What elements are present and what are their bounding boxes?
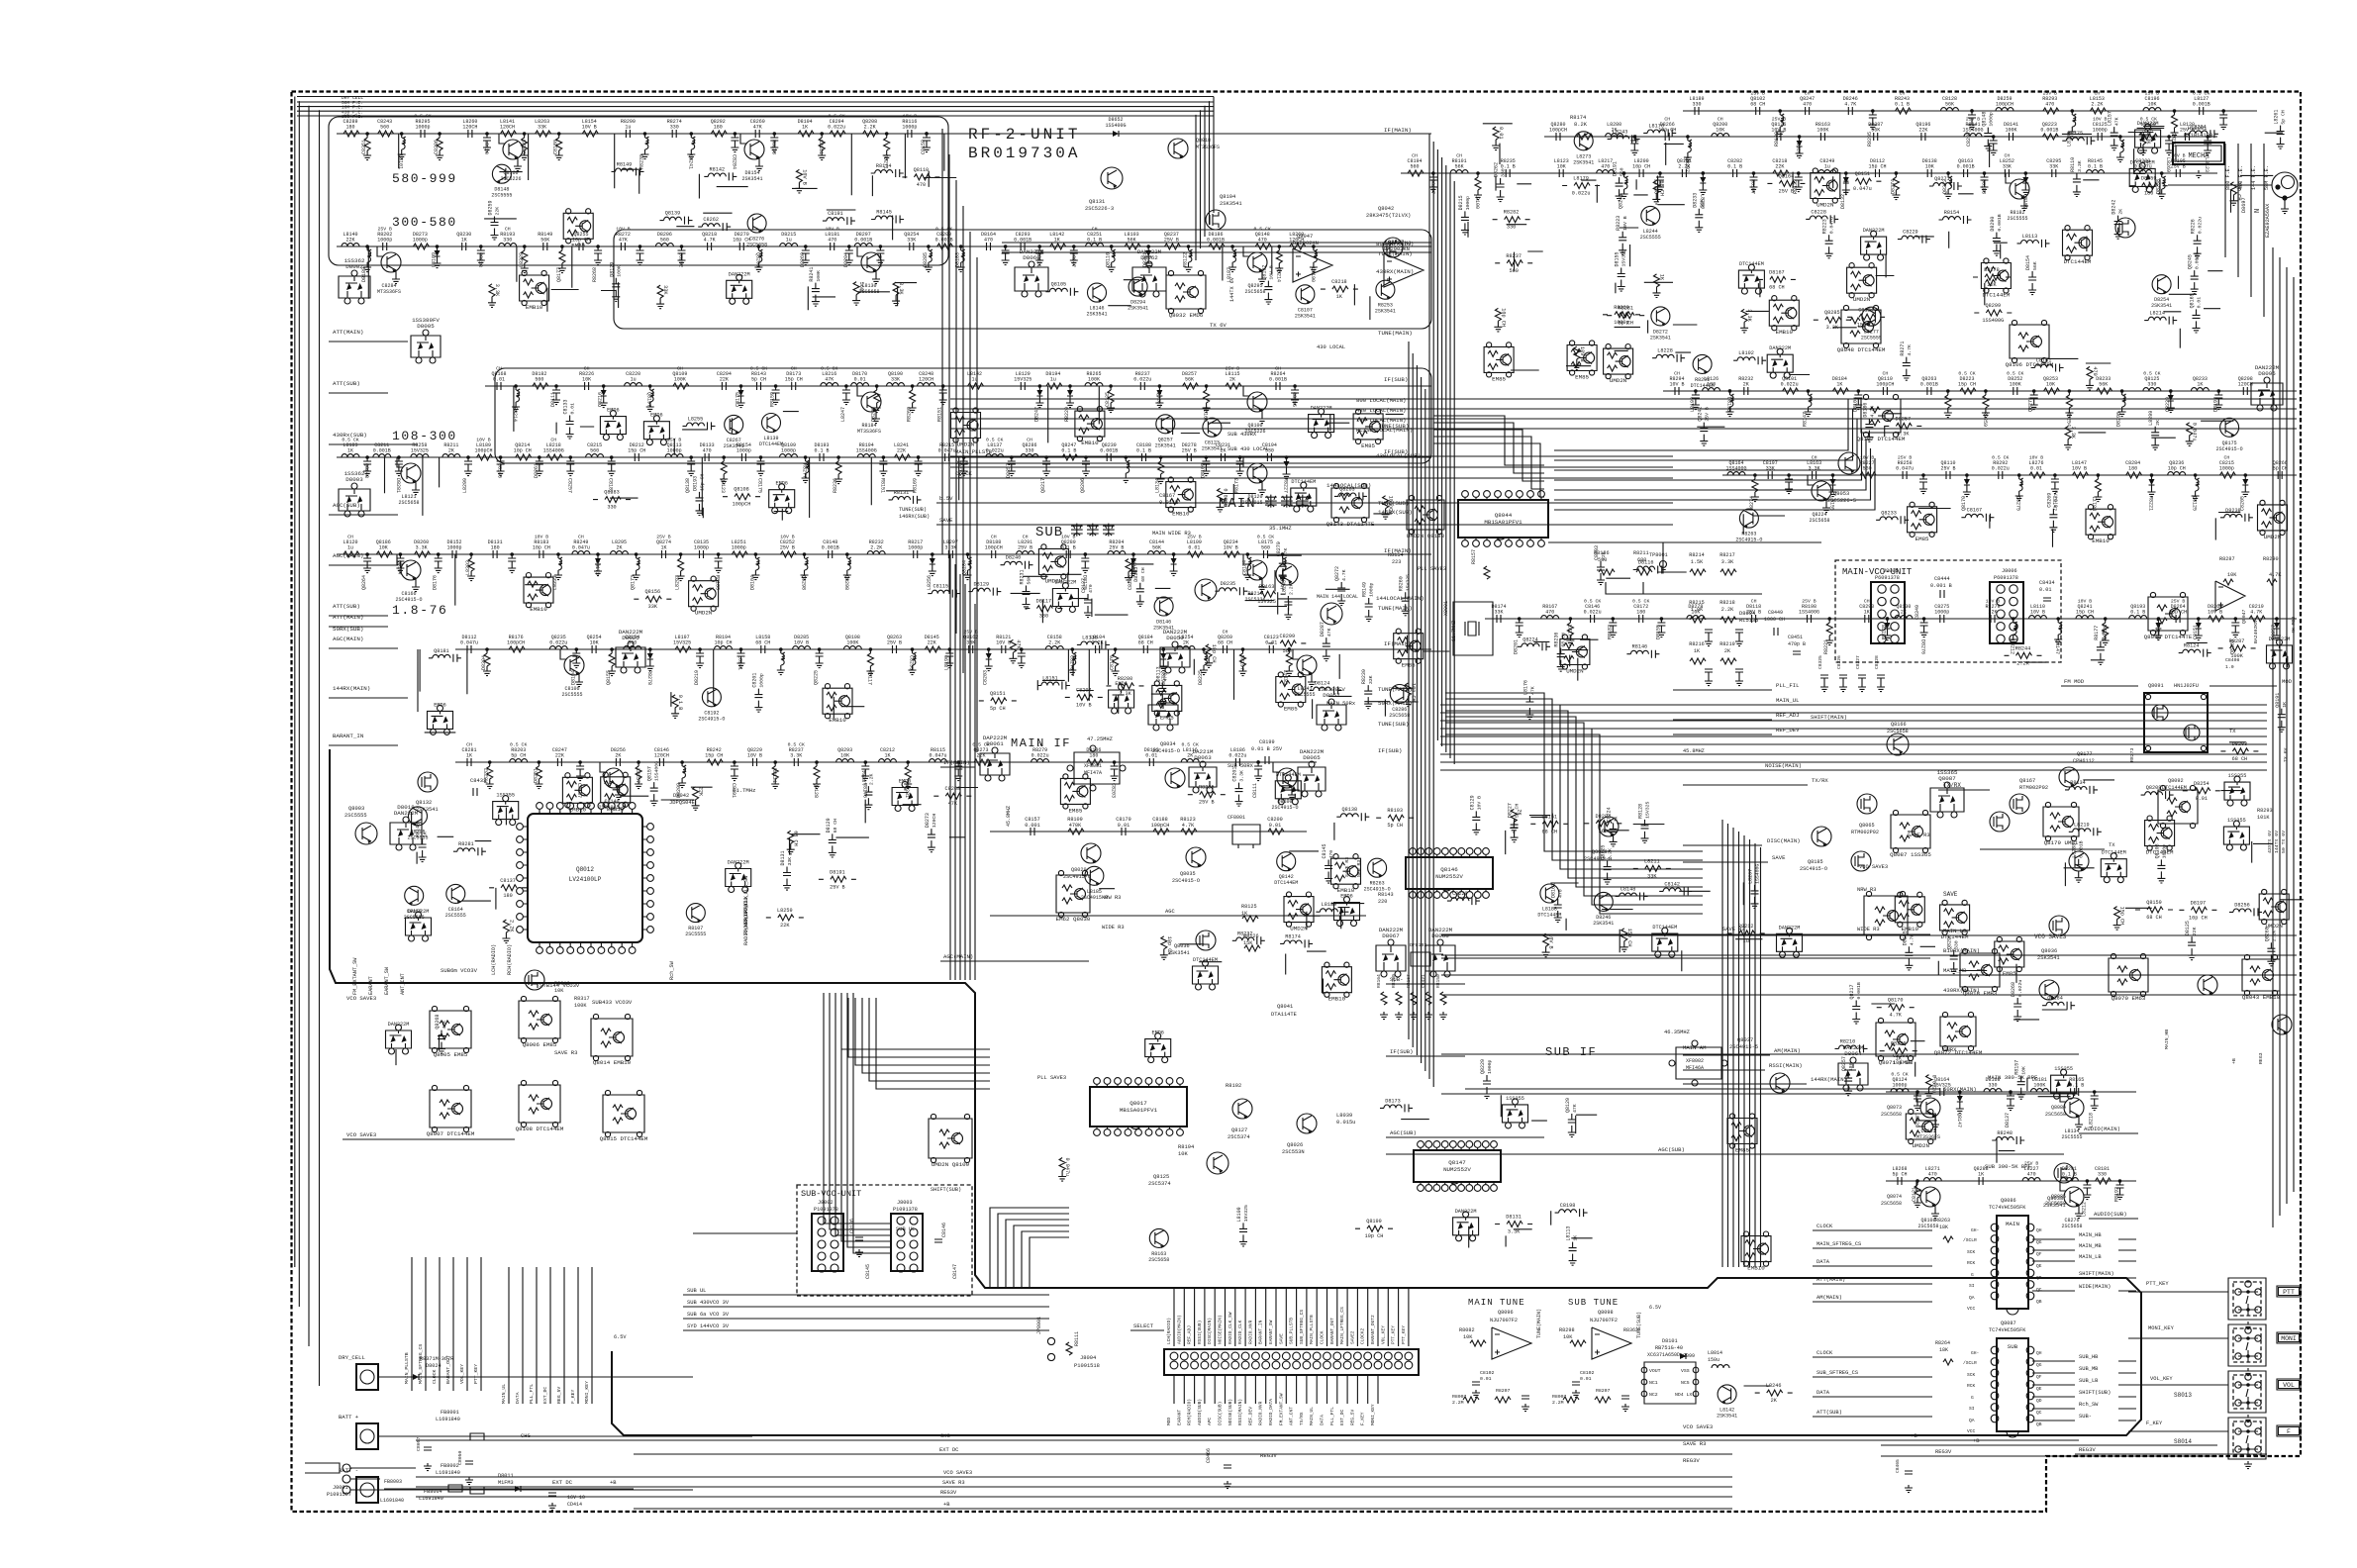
svg-text:C8145: C8145 [865, 1264, 871, 1279]
svg-text:10K: 10K [1563, 1334, 1573, 1340]
svg-text:2SK3541: 2SK3541 [1128, 306, 1148, 312]
svg-text:1K: 1K [884, 753, 890, 759]
svg-text:BA2902KN: BA2902KN [1384, 246, 1410, 252]
svg-text:SUB_HB: SUB_HB [2079, 1354, 2099, 1360]
svg-text:Q8017: Q8017 [1129, 1100, 1147, 1107]
svg-text:10K: 10K [590, 640, 599, 646]
svg-text:R8157: R8157 [1471, 549, 1477, 564]
svg-text:NUM2552V: NUM2552V [1443, 1166, 1471, 1173]
svg-text:PTT_KEY: PTT_KEY [1401, 1325, 1407, 1344]
svg-text:MONI_KEY: MONI_KEY [1370, 1404, 1376, 1425]
svg-text:Q8034: Q8034 [1160, 741, 1176, 747]
svg-text:47K: 47K [1015, 639, 1021, 649]
svg-text:10K: 10K [2227, 572, 2237, 578]
svg-text:SAVE: SAVE [1943, 891, 1958, 898]
svg-text:0.022u: 0.022u [1133, 377, 1151, 383]
svg-text:LV24100LP: LV24100LP [569, 876, 602, 883]
svg-text:47K: 47K [1326, 628, 1332, 637]
svg-text:1.0: 1.0 [2225, 664, 2234, 670]
svg-text:R8148: R8148 [416, 823, 422, 837]
svg-text:Q8006 EM85: Q8006 EM85 [523, 1041, 557, 1048]
svg-text:SUB 430VCO 3V: SUB 430VCO 3V [687, 1300, 730, 1306]
svg-text:43XTX 6V: 43XTX 6V [2267, 831, 2273, 853]
svg-text:C8167: C8167 [576, 783, 582, 798]
svg-text:0.047u: 0.047u [929, 753, 946, 759]
svg-text:QG: QG [2036, 1239, 2042, 1245]
svg-text:3.3K: 3.3K [790, 753, 802, 759]
svg-text:J8001: J8001 [333, 1485, 348, 1491]
svg-text:10V B: 10V B [903, 114, 918, 120]
svg-text:MAIN_MB: MAIN_MB [2079, 1243, 2102, 1249]
svg-text:10V B: 10V B [535, 535, 549, 540]
svg-text:22K: 22K [1918, 128, 1927, 134]
svg-text:DTC144EM: DTC144EM [1274, 880, 1298, 886]
svg-text:10V B: 10V B [1669, 382, 1684, 388]
svg-text:560: 560 [1410, 164, 1419, 170]
svg-text:MFI47A: MFI47A [1084, 770, 1102, 776]
svg-text:Q8197: Q8197 [646, 392, 652, 407]
svg-text:R8082: R8082 [1459, 1327, 1475, 1333]
svg-text:0.047u: 0.047u [1829, 217, 1835, 234]
svg-text:R8150: R8150 [1435, 974, 1441, 988]
svg-text:D8238: D8238 [2225, 508, 2241, 514]
svg-text:D8240: D8240 [1006, 555, 1022, 561]
svg-text:56K: 56K [2032, 261, 2038, 270]
svg-text:CH: CH [1900, 91, 1906, 97]
svg-text:10V B: 10V B [2030, 610, 2045, 616]
svg-text:C8204: C8204 [1076, 687, 1092, 693]
svg-text:D8105: D8105 [1852, 397, 1858, 412]
svg-text:100K: 100K [2033, 1083, 2045, 1089]
svg-text:68 CH: 68 CH [1658, 180, 1664, 196]
svg-text:D8193: D8193 [1726, 397, 1732, 412]
svg-text:0.1 B: 0.1 B [1136, 448, 1151, 454]
svg-text:560: 560 [1620, 167, 1625, 176]
svg-text:47K: 47K [825, 377, 834, 383]
svg-text:2SC4915-O: 2SC4915-O [698, 716, 725, 722]
svg-text:1SS355: 1SS355 [496, 793, 515, 799]
svg-text:D8113: D8113 [1155, 666, 1161, 681]
svg-text:47K: 47K [948, 801, 958, 807]
svg-text:2SC5658: 2SC5658 [1887, 729, 1909, 735]
svg-text:2.2M: 2.2M [1552, 1400, 1564, 1406]
svg-text:R8214: R8214 [512, 407, 518, 422]
svg-text:J8003: J8003 [897, 1200, 913, 1206]
svg-text:22K: 22K [780, 923, 790, 929]
svg-text:Q8071 EMB3: Q8071 EMB3 [1879, 1059, 1914, 1066]
svg-text:Q8007 DTC144EM: Q8007 DTC144EM [427, 1130, 475, 1137]
svg-text:11.7MHZ: 11.7MHZ [1451, 621, 1457, 641]
svg-text:430RX(MAIN): 430RX(MAIN) [1376, 268, 1414, 275]
svg-text:SAVE R3: SAVE R3 [1683, 1440, 1707, 1447]
svg-text:F_KEY: F_KEY [1360, 1412, 1366, 1425]
svg-text:1000p: 1000p [781, 448, 796, 454]
svg-text:MFI46A: MFI46A [1686, 1065, 1704, 1071]
svg-text:1000p: 1000p [2161, 844, 2167, 859]
svg-text:CH: CH [1412, 153, 1418, 159]
svg-text:Q8105: Q8105 [1051, 282, 1067, 288]
svg-text:L8179: L8179 [1573, 176, 1589, 182]
svg-text:1000p: 1000p [908, 545, 923, 551]
svg-text:Q8207: Q8207 [1155, 392, 1161, 407]
svg-text:22K: 22K [928, 640, 936, 646]
svg-text:F_KEY: F_KEY [570, 1389, 576, 1404]
svg-text:R8273: R8273 [2129, 747, 2135, 762]
svg-text:QE: QE [2036, 1263, 2042, 1269]
svg-text:68 CH: 68 CH [1561, 633, 1567, 647]
svg-text:R8124: R8124 [2184, 643, 2200, 649]
svg-text:IF(SUB): IF(SUB) [1384, 376, 1408, 383]
svg-text:R8219: R8219 [1719, 641, 1735, 647]
svg-text:CPH6112: CPH6112 [2073, 758, 2095, 764]
svg-text:2SC5226-5: 2SC5226-5 [1827, 498, 1856, 504]
svg-text:DAN222M: DAN222M [1779, 925, 1801, 931]
svg-text:R8214: R8214 [1689, 552, 1705, 558]
svg-text:EXT DC: EXT DC [552, 1479, 573, 1486]
svg-text:D8137: D8137 [2005, 1113, 2011, 1127]
svg-text:L8257: L8257 [635, 768, 640, 783]
svg-text:R8231: R8231 [1020, 569, 1026, 584]
svg-text:Q8047: Q8047 [2241, 609, 2247, 624]
svg-text:2SC5555: 2SC5555 [2061, 1134, 2082, 1140]
svg-text:L8212: L8212 [2081, 1202, 2087, 1217]
svg-text:C8135: C8135 [1105, 392, 1111, 407]
svg-text:QE: QE [2036, 1386, 2042, 1392]
svg-text:5p CH: 5p CH [2281, 110, 2287, 125]
svg-text:VCC: VCC [1967, 1306, 1976, 1312]
svg-text:D8094: D8094 [1739, 611, 1755, 617]
svg-text:SAVE R3: SAVE R3 [942, 1480, 965, 1486]
svg-text:Q8110: Q8110 [914, 167, 930, 173]
svg-text:TX: TX [2109, 842, 2115, 848]
svg-text:22K: 22K [345, 238, 354, 244]
svg-text:0.022u: 0.022u [1572, 191, 1591, 197]
svg-text:Q8245: Q8245 [2188, 254, 2194, 269]
svg-text:L8241: L8241 [737, 655, 743, 670]
svg-text:D8042: D8042 [673, 793, 689, 799]
svg-text:BR019730A: BR019730A [968, 145, 1080, 162]
svg-text:2K: 2K [448, 448, 454, 454]
svg-text:2SC4915-O: 2SC4915-O [1735, 538, 1762, 543]
svg-text:1000p: 1000p [902, 125, 917, 131]
svg-text:56K: 56K [540, 238, 549, 244]
svg-text:FB8001: FB8001 [441, 1410, 459, 1416]
svg-text:330: 330 [607, 505, 616, 511]
svg-text:25V B: 25V B [1940, 466, 1955, 472]
svg-text:QA: QA [1969, 1295, 1975, 1301]
svg-text:2SK3541: 2SK3541 [1375, 309, 1396, 315]
svg-text:100K: 100K [2010, 382, 2021, 388]
svg-text:2SK3541: 2SK3541 [1155, 442, 1176, 448]
svg-text:56K: 56K [1185, 377, 1194, 383]
svg-text:4.7K: 4.7K [1889, 1013, 1902, 1019]
svg-text:2SC5658: 2SC5658 [1389, 713, 1410, 719]
svg-text:CH: CH [1456, 153, 1462, 159]
svg-text:R8254: R8254 [2065, 412, 2071, 427]
svg-text:DAN222M: DAN222M [408, 909, 430, 915]
svg-text:D8155: D8155 [1655, 625, 1661, 639]
svg-text:D8238: D8238 [2156, 179, 2162, 194]
svg-text:15K: 15K [1243, 940, 1253, 946]
svg-text:SAVE R3: SAVE R3 [1908, 833, 1930, 838]
svg-text:EM85: EM85 [2003, 970, 2016, 977]
svg-text:D8161: D8161 [1551, 883, 1557, 898]
svg-text:P1091518: P1091518 [1074, 1363, 1100, 1369]
svg-text:100pCH: 100pCH [733, 502, 751, 508]
svg-text:1000 CH: 1000 CH [1764, 617, 1785, 623]
svg-text:R8221: R8221 [2148, 496, 2154, 511]
svg-text:56K: 56K [1945, 102, 1954, 108]
svg-text:2SC4915-O: 2SC4915-O [1800, 866, 1827, 872]
svg-text:Q8208: Q8208 [2146, 785, 2162, 791]
svg-text:D8262: D8262 [1494, 162, 1500, 177]
svg-text:10K: 10K [1716, 128, 1724, 134]
svg-text:10p CH: 10p CH [1365, 1233, 1384, 1239]
svg-text:Q8104: Q8104 [1220, 194, 1235, 200]
svg-text:330: 330 [503, 238, 512, 244]
svg-text:UMD2N: UMD2N [695, 610, 713, 617]
svg-text:1K: 1K [461, 238, 467, 244]
svg-text:Q8299: Q8299 [1986, 303, 2002, 309]
svg-text:R8154: R8154 [1388, 552, 1404, 558]
svg-text:D8101: D8101 [1662, 1338, 1678, 1344]
svg-text:Q8139: Q8139 [665, 211, 681, 217]
svg-text:RCK: RCK [1967, 1383, 1976, 1389]
svg-text:D8061: D8061 [986, 740, 1004, 747]
svg-text:AM(MAIN): AM(MAIN) [1817, 1295, 1842, 1301]
svg-text:R8102: R8102 [1226, 1083, 1241, 1089]
svg-text:CH: CH [1883, 371, 1889, 377]
svg-text:EMB10: EMB10 [526, 304, 543, 311]
svg-text:C8127: C8127 [1081, 578, 1087, 593]
svg-text:Q8159: Q8159 [2021, 194, 2027, 209]
svg-text:R8223: R8223 [1822, 219, 1828, 234]
svg-text:1K: 1K [1659, 274, 1665, 281]
svg-text:C8229: C8229 [1903, 230, 1918, 236]
svg-text:C8129: C8129 [1469, 795, 1475, 810]
svg-text:CH: CH [2005, 153, 2011, 159]
svg-text:UMD2N: UMD2N [2264, 534, 2282, 540]
svg-text:C8270: C8270 [1276, 541, 1282, 556]
svg-text:Q8146: Q8146 [1440, 866, 1458, 873]
svg-text:10K: 10K [379, 545, 388, 551]
svg-text:EMD6: EMD6 [899, 779, 911, 785]
svg-text:2SC553N: 2SC553N [1282, 1149, 1305, 1155]
svg-text:CH: CH [584, 366, 590, 372]
svg-text:SUB6m VCO3V: SUB6m VCO3V [441, 967, 478, 974]
svg-text:15p CH: 15p CH [1626, 929, 1632, 947]
svg-text:R8007: R8007 [1452, 1394, 1467, 1400]
svg-text:10V B: 10V B [2072, 466, 2087, 472]
svg-text:CH: CH [1092, 227, 1098, 233]
svg-text:4.7K: 4.7K [1844, 102, 1856, 108]
svg-text:XF8001: XF8001 [1084, 763, 1102, 769]
svg-text:2SC4915-O: 2SC4915-O [1364, 887, 1391, 893]
svg-text:Q8087: Q8087 [1938, 775, 1956, 782]
svg-text:R8134: R8134 [2070, 780, 2086, 786]
svg-text:3.3K: 3.3K [2070, 427, 2076, 440]
svg-text:330: 330 [670, 125, 679, 131]
svg-text:0.01: 0.01 [493, 377, 505, 383]
svg-text:MAIN: MAIN [2006, 1221, 2019, 1227]
svg-text:CH: CH [578, 535, 584, 540]
svg-text:2SC5555: 2SC5555 [344, 813, 367, 819]
svg-text:REG3V: REG3V [940, 1490, 957, 1496]
svg-text:Q8224: Q8224 [1522, 637, 1538, 642]
svg-text:FM_EXTANT_SW: FM_EXTANT_SW [1278, 1393, 1284, 1425]
svg-text:0.1 B: 0.1 B [814, 448, 829, 454]
svg-text:+B: +B [610, 1480, 617, 1486]
svg-text:100K: 100K [616, 265, 622, 277]
svg-text:180: 180 [1707, 382, 1716, 388]
svg-text:Q8087 1SS365: Q8087 1SS365 [1890, 851, 1931, 858]
svg-text:C8257: C8257 [566, 478, 572, 493]
svg-text:2SK3541: 2SK3541 [1295, 313, 1316, 319]
svg-text:10K: 10K [582, 377, 591, 383]
svg-text:0.5 CK: 0.5 CK [935, 227, 952, 233]
svg-text:0.5 CK: 0.5 CK [2007, 371, 2023, 377]
svg-text:L8190: L8190 [1310, 267, 1316, 282]
svg-text:1SS355: 1SS355 [2054, 1066, 2073, 1072]
svg-text:0.001B: 0.001B [1100, 448, 1118, 454]
svg-text:0.5 CK: 0.5 CK [1958, 371, 1975, 377]
svg-text:1K: 1K [1573, 1235, 1579, 1241]
svg-text:146RX(SUB): 146RX(SUB) [899, 514, 930, 520]
svg-text:MAIN IF: MAIN IF [1011, 736, 1071, 750]
svg-text:TX 6V: TX 6V [2283, 747, 2289, 762]
svg-text:R8183: R8183 [715, 575, 721, 590]
svg-text:D8185: D8185 [1902, 931, 1908, 945]
svg-text:L1691840: L1691840 [419, 1496, 443, 1502]
svg-text:33K: 33K [1494, 610, 1503, 616]
svg-text:Q8143 DTA114TE: Q8143 DTA114TE [1326, 521, 1375, 528]
svg-text:0.5 CK: 0.5 CK [510, 742, 527, 748]
svg-text:TUNE(MAIN): TUNE(MAIN) [1378, 330, 1413, 337]
svg-text:3.3K: 3.3K [898, 282, 904, 295]
svg-text:C8408: C8408 [2225, 657, 2240, 663]
svg-text:R8277: R8277 [802, 463, 808, 478]
svg-text:180: 180 [1089, 753, 1098, 759]
svg-text:D8109: D8109 [1200, 463, 1206, 478]
svg-text:33K: 33K [662, 285, 668, 295]
svg-text:144 LOCAL(MAIN): 144 LOCAL(MAIN) [1356, 417, 1406, 424]
svg-text:2SC5555: 2SC5555 [445, 913, 466, 919]
svg-text:25V B: 25V B [656, 535, 671, 540]
svg-text:L8102: L8102 [1738, 350, 1754, 356]
svg-text:HS8001: HS8001 [2188, 126, 2207, 132]
svg-text:560: 560 [1863, 466, 1872, 472]
svg-text:D8173: D8173 [1385, 1098, 1401, 1104]
svg-text:D8062: D8062 [1140, 254, 1158, 261]
svg-text:C8167: C8167 [1967, 508, 1983, 514]
svg-text:R8211: R8211 [1633, 550, 1649, 556]
svg-text:10p CH: 10p CH [514, 448, 532, 454]
svg-text:4.7K: 4.7K [2250, 610, 2262, 616]
svg-text:2SK3541: 2SK3541 [1168, 950, 1190, 956]
svg-text:R8146: R8146 [1632, 644, 1648, 650]
svg-text:Q8199: Q8199 [1366, 1219, 1382, 1225]
svg-text:ND4 LX: ND4 LX [1675, 1392, 1692, 1398]
svg-text:180: 180 [345, 125, 354, 131]
svg-text:223: 223 [1392, 559, 1401, 565]
svg-text:3.3K: 3.3K [1746, 309, 1752, 322]
svg-text:10V B: 10V B [780, 535, 795, 540]
svg-text:Q8035: Q8035 [1180, 871, 1196, 877]
svg-text:MOD: MOD [1166, 1418, 1172, 1425]
svg-text:10V B: 10V B [1579, 346, 1585, 362]
svg-text:2SC5658: 2SC5658 [2045, 1201, 2066, 1207]
svg-text:0.001B: 0.001B [1207, 238, 1225, 244]
svg-text:UMD2N: UMD2N [1610, 377, 1627, 384]
svg-text:180: 180 [2128, 466, 2137, 472]
svg-text:15p CH: 15p CH [2119, 907, 2125, 926]
svg-text:Q8131: Q8131 [1089, 199, 1105, 205]
svg-text:0.01: 0.01 [1265, 640, 1277, 646]
svg-text:0.01 B 25V: 0.01 B 25V [1251, 746, 1283, 752]
svg-text:Q8072 DTC144EM: Q8072 DTC144EM [1934, 1049, 1983, 1056]
svg-text:D8064: D8064 [1844, 1050, 1862, 1057]
svg-text:R8215: R8215 [1689, 600, 1705, 606]
svg-text:2SC5555: 2SC5555 [1861, 336, 1882, 342]
svg-text:R8142: R8142 [710, 166, 726, 172]
svg-text:100pCH: 100pCH [1996, 102, 2013, 108]
svg-text:0.5 CK: 0.5 CK [2143, 371, 2160, 377]
svg-text:DAN222M: DAN222M [1020, 248, 1044, 255]
svg-text:2SC5658: 2SC5658 [1809, 518, 1829, 524]
svg-text:1K: 1K [1054, 238, 1060, 244]
svg-text:1000p: 1000p [737, 448, 751, 454]
svg-text:DAN222M: DAN222M [1379, 927, 1404, 933]
svg-text:JP8001: JP8001 [1036, 1317, 1042, 1334]
svg-text:28K3475(T2LVX): 28K3475(T2LVX) [1366, 213, 1411, 219]
svg-text:Q8138: Q8138 [685, 478, 691, 493]
svg-text:DATA: DATA [1817, 1390, 1830, 1396]
svg-text:M1FM3: M1FM3 [498, 1480, 514, 1486]
svg-text:EMB10: EMB10 [1172, 511, 1190, 518]
svg-text:10V B: 10V B [1860, 455, 1875, 461]
svg-text:10V B: 10V B [582, 125, 597, 131]
svg-text:Q8148: Q8148 [1981, 112, 1987, 127]
svg-text:Q8041: Q8041 [1277, 1004, 1293, 1010]
svg-text:0.022u: 0.022u [1228, 753, 1246, 759]
svg-text:AUDIO(SUB): AUDIO(SUB) [1197, 1399, 1203, 1425]
svg-text:Q8268: Q8268 [2264, 927, 2270, 941]
svg-text:0.001B: 0.001B [1957, 164, 1975, 170]
svg-text:D8204: D8204 [843, 252, 849, 267]
svg-text:FB8004: FB8004 [424, 1489, 442, 1495]
svg-text:C8050: C8050 [457, 1450, 463, 1465]
svg-text:0.011B: 0.011B [1159, 500, 1179, 506]
svg-text:0.01: 0.01 [1118, 823, 1129, 829]
svg-text:33K: 33K [538, 125, 546, 131]
svg-text:Q8053: Q8053 [1833, 491, 1849, 497]
svg-text:R8217: R8217 [1719, 552, 1735, 558]
svg-text:C8228: C8228 [1811, 209, 1826, 215]
svg-text:330: 330 [1025, 448, 1033, 454]
svg-text:33K: 33K [1368, 675, 1374, 684]
svg-text:0.01: 0.01 [2196, 796, 2208, 802]
svg-text:100K: 100K [574, 1003, 587, 1009]
svg-text:NOISE(MAIN): NOISE(MAIN) [1218, 1315, 1224, 1344]
svg-text:1SS400G: 1SS400G [543, 448, 564, 454]
svg-text:R8227: R8227 [1283, 478, 1289, 493]
svg-text:4.7K: 4.7K [704, 238, 716, 244]
svg-text:MAIN_HB: MAIN_HB [2164, 1029, 2170, 1049]
svg-text:0.022u: 0.022u [1031, 753, 1049, 759]
svg-text:Q8129: Q8129 [1565, 1098, 1571, 1113]
svg-text:R8139: R8139 [1774, 132, 1780, 147]
svg-text:D8131: D8131 [1506, 1215, 1522, 1221]
